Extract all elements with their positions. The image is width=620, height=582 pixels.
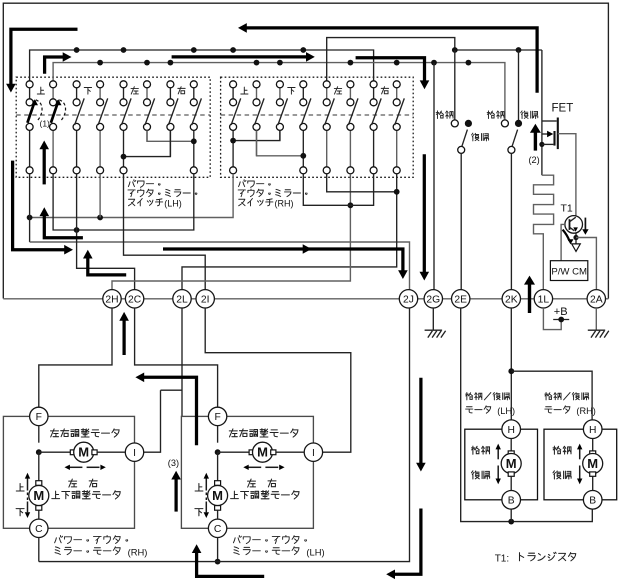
svg-text:T1:: T1:	[495, 554, 509, 565]
svg-text:I: I	[312, 448, 315, 459]
svg-text:C: C	[35, 524, 43, 535]
svg-text:1L: 1L	[538, 295, 550, 306]
svg-text:(3): (3)	[168, 458, 179, 468]
svg-text:C: C	[214, 524, 222, 535]
svg-text:M: M	[257, 445, 268, 460]
svg-text:(LH): (LH)	[497, 406, 515, 416]
svg-text:(LH): (LH)	[306, 546, 324, 557]
svg-text:F: F	[36, 412, 42, 423]
svg-text:M: M	[78, 445, 89, 460]
svg-text:(1): (1)	[40, 118, 51, 128]
svg-text:M: M	[506, 456, 517, 471]
svg-text:(RH): (RH)	[128, 546, 148, 557]
svg-text:(RH): (RH)	[275, 199, 294, 209]
svg-text:(2): (2)	[529, 155, 540, 165]
svg-text:2E: 2E	[454, 295, 467, 306]
svg-text:2A: 2A	[590, 295, 603, 306]
svg-text:(RH): (RH)	[576, 406, 595, 416]
svg-text:2G: 2G	[426, 295, 440, 306]
svg-text:T1: T1	[561, 203, 573, 215]
svg-text:P/W CM: P/W CM	[551, 266, 587, 277]
svg-text:2C: 2C	[128, 295, 142, 306]
svg-text:2H: 2H	[105, 295, 118, 306]
svg-text:+B: +B	[554, 306, 568, 318]
svg-text:M: M	[212, 488, 223, 503]
svg-text:B: B	[589, 496, 596, 507]
svg-text:M: M	[587, 456, 598, 471]
svg-text:2K: 2K	[505, 295, 518, 306]
svg-text:FET: FET	[552, 103, 574, 115]
svg-text:2L: 2L	[176, 295, 188, 306]
svg-text:H: H	[589, 425, 596, 436]
svg-text:I: I	[133, 448, 136, 459]
svg-text:B: B	[508, 496, 515, 507]
svg-text:M: M	[33, 488, 44, 503]
svg-text:H: H	[507, 425, 514, 436]
svg-text:2J: 2J	[403, 295, 414, 306]
svg-text:2I: 2I	[201, 295, 210, 306]
svg-text:F: F	[214, 412, 220, 423]
svg-text:(LH): (LH)	[164, 199, 182, 209]
